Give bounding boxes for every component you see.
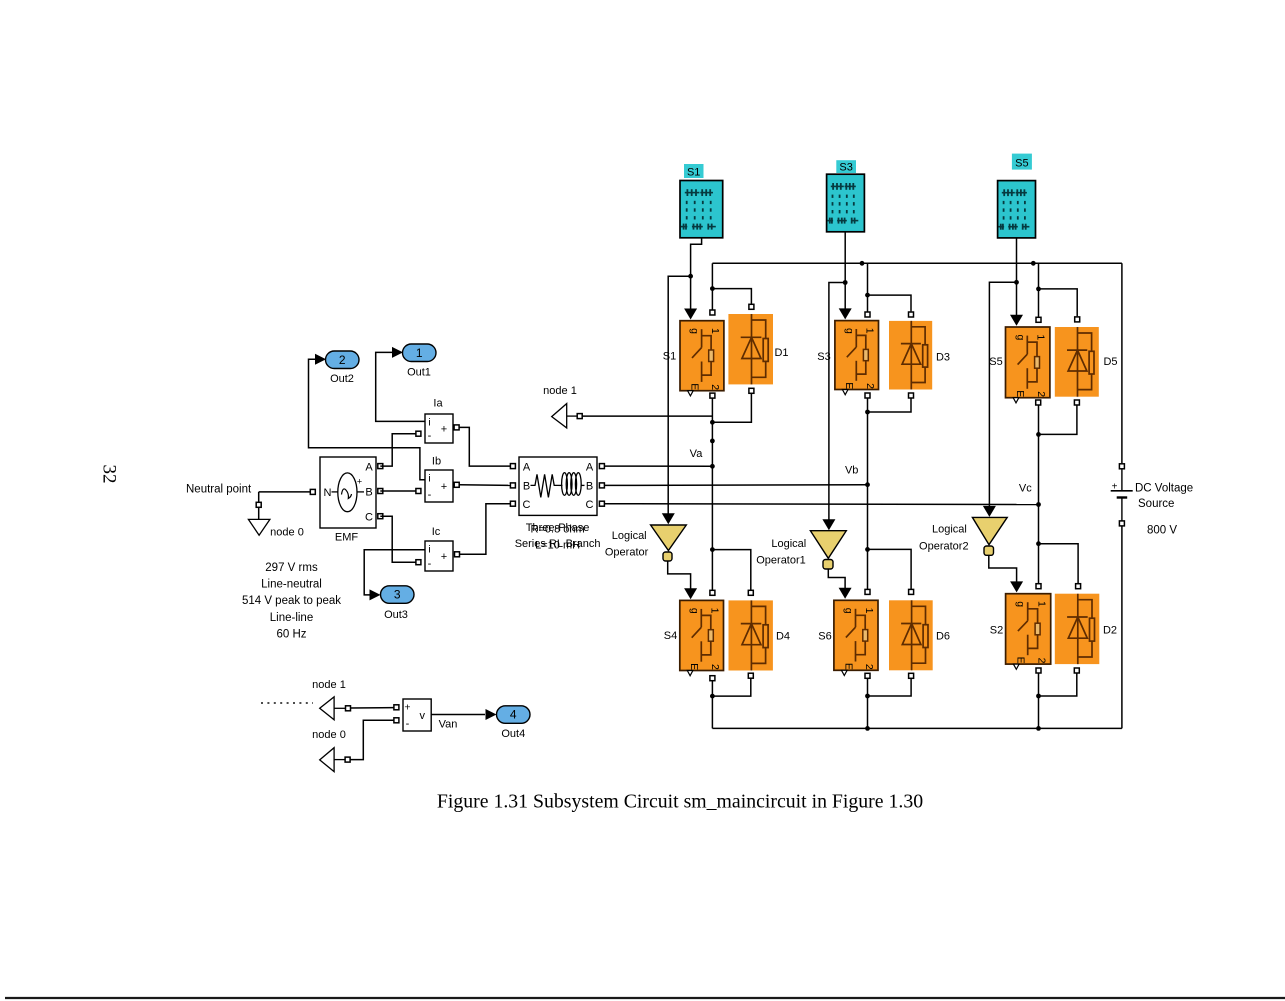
svg-text:2: 2 — [863, 664, 875, 670]
wire RL B to phase B — [605, 484, 868, 487]
wire node 1 to Van + — [351, 707, 394, 709]
svg-text:Logical: Logical — [932, 524, 967, 536]
Ia output port — [454, 425, 459, 430]
wire to D4 top — [712, 550, 750, 591]
svg-text:N: N — [324, 487, 332, 499]
svg-text:B: B — [365, 487, 372, 499]
wire phase C vertical — [1038, 405, 1040, 583]
svg-text:E: E — [843, 382, 855, 389]
D6 bottom port — [909, 673, 914, 678]
wire Ic to RL C — [460, 504, 511, 555]
svg-text:B: B — [523, 480, 530, 492]
wire S1 gate branch to NOT — [668, 276, 690, 520]
wire Ia to RL A — [459, 427, 510, 466]
svg-text:2: 2 — [1035, 391, 1047, 397]
wire phase B vertical — [867, 398, 869, 589]
arrow into S6 gate — [839, 588, 852, 599]
svg-text:+: + — [441, 551, 447, 563]
EMF port B — [378, 489, 383, 494]
svg-text:Van: Van — [439, 719, 458, 731]
svg-text:v: v — [419, 710, 425, 722]
svg-text:2: 2 — [1036, 658, 1048, 664]
label R L values overlapped — [531, 524, 585, 552]
svg-text:Out1: Out1 — [407, 367, 431, 379]
junction D2 emitter — [1036, 694, 1041, 699]
svg-text:1: 1 — [863, 608, 875, 614]
wire bus to S5 collector — [1038, 263, 1040, 317]
wire bus to DC source + — [1121, 263, 1123, 463]
outport arrow Out2 — [315, 354, 326, 365]
outport Out1 — [403, 344, 437, 362]
IGBT S6 — [834, 600, 878, 675]
wire D6 bottom to S6 emitter — [868, 679, 912, 697]
svg-text:E: E — [1014, 657, 1026, 664]
svg-text:D6: D6 — [936, 631, 950, 643]
diode block D2 — [1055, 594, 1100, 664]
node 0 port — [256, 502, 261, 507]
diode block D6 — [889, 600, 933, 670]
svg-text:S3: S3 — [817, 351, 830, 363]
arrow into S5 gate — [1010, 315, 1023, 326]
svg-text:g: g — [843, 328, 855, 334]
IGBT S2 — [1006, 594, 1051, 670]
svg-text:+: + — [441, 481, 447, 493]
svg-text:Figure 1.31 Subsystem Circuit: Figure 1.31 Subsystem Circuit sm_maincir… — [437, 791, 923, 813]
IGBT S4 — [680, 600, 724, 675]
svg-text:Ic: Ic — [432, 526, 441, 538]
wire D2 bottom to S2 emitter — [1039, 673, 1077, 696]
RL port A in — [510, 464, 515, 469]
svg-text:+: + — [404, 702, 410, 714]
arrow into S2 gate — [1010, 581, 1023, 592]
svg-text:A: A — [365, 462, 373, 474]
svg-text:4: 4 — [510, 708, 517, 722]
svg-text:A: A — [523, 462, 531, 474]
RL port C out — [599, 501, 604, 506]
RL port C in — [510, 501, 515, 506]
IGBT S5 — [1006, 327, 1050, 403]
junction D3 phase B — [865, 410, 870, 415]
wire D4 bottom to S4 emitter — [712, 678, 750, 696]
D5 top port — [1075, 317, 1080, 322]
current measurement Ia — [425, 414, 453, 443]
node 1 lower port — [346, 706, 351, 711]
D2 top port — [1076, 584, 1081, 589]
svg-text:1: 1 — [864, 328, 876, 334]
svg-text:-: - — [428, 558, 432, 570]
svg-text:g: g — [689, 328, 701, 334]
svg-text:i: i — [428, 473, 430, 485]
junction phase A to D4 — [710, 547, 715, 552]
wire D5 bottom to phase C — [1039, 405, 1077, 434]
svg-text:-: - — [428, 430, 432, 442]
wire RL A to phase A — [605, 465, 713, 467]
svg-text:Vb: Vb — [845, 464, 858, 476]
svg-text:1: 1 — [708, 608, 720, 614]
page footer rule — [5, 997, 1285, 999]
EMF port A — [378, 464, 383, 469]
S3 collector port — [865, 312, 870, 317]
D4 top port — [748, 590, 753, 595]
svg-text:E: E — [1014, 390, 1026, 397]
junction bus leg2 bottom — [865, 726, 870, 731]
svg-text:Neutral point: Neutral point — [186, 484, 252, 496]
junction bus leg3 — [1031, 261, 1036, 266]
junction D5 phase C — [1036, 432, 1041, 437]
svg-text:S2: S2 — [990, 625, 1003, 637]
junction phase C to D2 — [1036, 541, 1041, 546]
D5 bottom port — [1074, 400, 1079, 405]
svg-text:S4: S4 — [664, 630, 677, 642]
junction D6 emitter — [865, 694, 870, 699]
wire to D2 top — [1039, 544, 1079, 584]
svg-text:EMF: EMF — [335, 532, 359, 544]
svg-text:2: 2 — [709, 664, 721, 670]
outport arrow Out4 — [486, 709, 497, 720]
svg-text:+: + — [357, 477, 362, 487]
svg-text:g: g — [1014, 335, 1026, 341]
wire neutral point to EMF — [259, 491, 311, 493]
svg-text:node 0: node 0 — [312, 729, 346, 741]
junction RL B phase B — [865, 482, 870, 487]
wire NOT to S4 gate — [668, 561, 691, 595]
wire S3 pulse to gate — [844, 232, 846, 315]
arrow into S4 gate — [684, 588, 697, 599]
RL port A out — [599, 464, 604, 469]
D2 bottom port — [1074, 668, 1079, 673]
svg-text:Out3: Out3 — [384, 609, 408, 621]
svg-text:Logical: Logical — [612, 530, 647, 542]
wire S5 gate branch to NOT2 — [989, 282, 1016, 513]
S1 collector port — [710, 310, 715, 315]
label box S5 — [1012, 154, 1032, 170]
wire to D5 top — [1039, 289, 1078, 316]
wire Ib i to Out2 — [309, 359, 425, 480]
svg-text:514 V peak to peak: 514 V peak to peak — [242, 595, 341, 607]
svg-text:Out2: Out2 — [330, 373, 354, 385]
junction RL A phase A — [710, 464, 715, 469]
D3 top port — [909, 312, 914, 317]
DC source - port — [1119, 521, 1124, 526]
IGBT S3 — [835, 321, 879, 395]
svg-text:Line-line: Line-line — [270, 612, 313, 624]
node 0 lower — [320, 748, 334, 772]
outport arrow Out3 — [370, 589, 381, 600]
D3 bottom port — [909, 393, 914, 398]
wire to D3 top — [868, 295, 912, 311]
label box S3 — [836, 160, 856, 173]
svg-text:800 V: 800 V — [1147, 525, 1177, 537]
Ic output port — [455, 552, 460, 557]
Ia input port — [416, 431, 421, 436]
arrow into S1 gate — [684, 309, 697, 320]
pulse generator S5 — [998, 181, 1036, 238]
wire Van to Out4 — [431, 714, 485, 716]
arrow into logical operator — [662, 513, 675, 524]
junction bus leg3 bottom — [1036, 726, 1041, 731]
svg-text:D4: D4 — [776, 631, 790, 643]
wire RL C to phase C — [605, 503, 1039, 506]
junction S1 gate — [688, 274, 693, 279]
junction phase A anchor — [710, 439, 715, 444]
RL port B in — [510, 483, 515, 488]
svg-text:Logical: Logical — [771, 538, 806, 550]
S2 collector port — [1036, 584, 1041, 589]
svg-text:E: E — [688, 663, 700, 670]
svg-text:S3: S3 — [839, 162, 852, 174]
pulse generator S1 — [680, 181, 723, 238]
wire bottom DC bus — [712, 727, 1122, 729]
svg-text:S1: S1 — [687, 166, 700, 178]
wire S2 emitter down — [1038, 673, 1040, 728]
svg-text:+: + — [441, 424, 447, 436]
svg-text:1: 1 — [709, 328, 721, 334]
junction phase B to D6 — [865, 547, 870, 552]
svg-text:i: i — [428, 417, 430, 429]
svg-text:Source: Source — [1138, 498, 1174, 510]
Van + port — [394, 705, 399, 710]
node 0 — [248, 519, 270, 535]
D1 bottom port — [749, 388, 754, 393]
wire node 1 to phase A — [583, 415, 713, 417]
diode block D4 — [729, 600, 773, 670]
S4 collector port — [710, 590, 715, 595]
wire node 0 stub — [258, 508, 260, 520]
svg-text:3: 3 — [394, 588, 401, 602]
pulse generator S3 — [827, 174, 865, 232]
current measurement Ib — [425, 470, 453, 502]
wire S6 emitter down — [867, 679, 869, 729]
svg-text:1: 1 — [416, 346, 423, 360]
dotted wire — [261, 702, 313, 704]
EMF input port — [310, 489, 315, 494]
svg-text:R=0.8 ohm: R=0.8 ohm — [531, 524, 585, 536]
junction D1 phase A — [710, 420, 715, 425]
svg-text:60 Hz: 60 Hz — [276, 628, 306, 640]
svg-text:Out4: Out4 — [501, 728, 525, 740]
svg-text:2: 2 — [339, 353, 346, 367]
svg-text:E: E — [688, 383, 700, 390]
svg-text:DC Voltage: DC Voltage — [1135, 483, 1193, 495]
junction S5 collector / D5 — [1036, 287, 1041, 292]
svg-text:A: A — [586, 462, 594, 474]
S4 emitter port — [710, 676, 715, 681]
logical operator2 NOT — [972, 517, 1007, 555]
wire bus to S3 collector — [867, 263, 869, 311]
junction S1 collector / D1 — [710, 286, 715, 291]
S2 emitter port — [1036, 668, 1041, 673]
Ib input port — [416, 489, 421, 494]
wire EMF A to Ia — [380, 434, 415, 466]
wire S4 emitter down — [711, 681, 713, 729]
arrow into logical operator1 — [822, 519, 835, 530]
wire node 0 to Van - — [350, 720, 393, 759]
svg-text:g: g — [688, 608, 700, 614]
label DC Voltage Source — [1135, 483, 1193, 511]
D6 top port — [909, 589, 914, 594]
wire top DC bus — [712, 262, 1122, 264]
svg-text:g: g — [843, 608, 855, 614]
wire bottom bus to DC source - — [1121, 526, 1123, 728]
S5 emitter port — [1036, 400, 1041, 405]
svg-text:Line-neutral: Line-neutral — [261, 579, 322, 591]
wire S5 pulse to gate — [1016, 238, 1018, 322]
node 0 lower port — [345, 757, 350, 762]
svg-text:Va: Va — [690, 448, 704, 460]
wire D3 bottom to phase B — [868, 398, 912, 412]
S3 emitter port — [865, 393, 870, 398]
diode block D5 — [1055, 327, 1099, 397]
svg-text:node 0: node 0 — [270, 527, 304, 539]
wire to D6 top — [868, 549, 912, 589]
logical operator1 NOT — [810, 531, 846, 569]
DC source + port — [1119, 464, 1124, 469]
wire Ib to RL B — [459, 484, 510, 487]
wire S3 gate branch to NOT1 — [829, 283, 845, 527]
arrow into S3 gate — [839, 308, 852, 319]
svg-text:-: - — [428, 489, 432, 501]
S6 collector port — [865, 589, 870, 594]
svg-text:C: C — [365, 512, 373, 524]
svg-text:C: C — [523, 499, 531, 511]
voltage measurement Van — [403, 699, 431, 731]
wire NOT1 to S6 gate — [828, 569, 845, 594]
D1 top port — [749, 304, 754, 309]
svg-text:D3: D3 — [936, 352, 950, 364]
svg-text:S5: S5 — [1015, 157, 1028, 169]
outport Out3 — [381, 586, 415, 604]
S6 emitter port — [865, 673, 870, 678]
svg-text:Operator2: Operator2 — [919, 541, 969, 553]
label Logical Operator — [605, 530, 649, 558]
svg-text:L=10 mH: L=10 mH — [535, 539, 580, 551]
wire EMF B to Ib — [380, 490, 415, 492]
Ic input port — [416, 560, 421, 565]
svg-text:32: 32 — [99, 465, 120, 484]
source parameter text — [242, 562, 341, 641]
svg-text:C: C — [586, 499, 594, 511]
wire to D1 top — [712, 289, 751, 304]
svg-text:-: - — [406, 718, 410, 730]
diode block D3 — [889, 321, 932, 390]
svg-text:Operator: Operator — [605, 547, 649, 559]
wire bus to S1 collector — [711, 263, 713, 309]
logical operator NOT — [651, 525, 687, 561]
svg-text:Operator1: Operator1 — [756, 554, 806, 566]
svg-text:Ia: Ia — [433, 398, 443, 410]
svg-text:Ib: Ib — [432, 455, 441, 467]
label Logical Operator2 — [919, 524, 969, 553]
D4 bottom port — [748, 673, 753, 678]
svg-text:1: 1 — [1035, 334, 1047, 340]
EMF port C — [378, 514, 383, 519]
label box S1 — [684, 164, 704, 178]
svg-text:D2: D2 — [1103, 625, 1117, 637]
svg-text:D5: D5 — [1103, 356, 1117, 368]
junction RL C phase C — [1036, 502, 1041, 507]
svg-text:E: E — [842, 663, 854, 670]
junction S3 gate — [843, 280, 848, 285]
svg-text:i: i — [428, 544, 430, 556]
EMF block — [320, 457, 376, 528]
wire Ic i to Out3 — [364, 550, 425, 595]
node 1 port — [577, 414, 582, 419]
outport arrow Out1 — [392, 347, 403, 358]
outport Out2 — [326, 351, 360, 369]
svg-text:g: g — [1015, 601, 1027, 607]
node 1 — [552, 404, 567, 428]
svg-text:2: 2 — [864, 383, 876, 389]
junction D4 emitter — [710, 694, 715, 699]
wire S1 pulse to gate — [691, 238, 702, 315]
S5 collector port — [1036, 317, 1041, 322]
wire D1 bottom to phase A — [712, 394, 751, 423]
svg-text:2: 2 — [709, 384, 721, 390]
svg-text:S1: S1 — [663, 351, 676, 363]
RL port B out — [599, 483, 604, 488]
junction bus leg2 — [860, 261, 865, 266]
svg-text:D1: D1 — [774, 347, 788, 359]
three-phase series RL branch — [519, 457, 597, 515]
outport Out4 — [497, 706, 531, 724]
Ib output port — [454, 482, 459, 487]
arrow into logical operator2 — [983, 506, 996, 517]
svg-text:297 V rms: 297 V rms — [265, 562, 318, 574]
wire EMF C to Ic — [380, 516, 415, 562]
wire Ia i to Out1 — [376, 352, 425, 421]
Van - port — [394, 718, 399, 723]
junction S5 gate — [1014, 280, 1019, 285]
svg-text:Vc: Vc — [1019, 482, 1032, 494]
diode block D1 — [728, 314, 773, 384]
svg-text:1: 1 — [1035, 601, 1047, 607]
svg-text:S5: S5 — [989, 356, 1002, 368]
label Three-Phase Series RL Branch — [515, 522, 601, 550]
current measurement Ic — [425, 541, 453, 571]
svg-text:node 1: node 1 — [543, 385, 577, 397]
wire phase A vertical — [711, 398, 713, 590]
label Logical Operator1 — [756, 538, 806, 566]
S1 emitter port — [710, 393, 715, 398]
node 1 lower — [320, 697, 334, 720]
IGBT S1 — [680, 321, 724, 396]
DC voltage source — [1111, 469, 1133, 521]
wire NOT2 to S2 gate — [989, 555, 1017, 588]
svg-text:B: B — [586, 480, 593, 492]
svg-text:node 1: node 1 — [312, 679, 346, 691]
svg-text:S6: S6 — [818, 631, 831, 643]
junction S3 collector / D3 — [865, 293, 870, 298]
